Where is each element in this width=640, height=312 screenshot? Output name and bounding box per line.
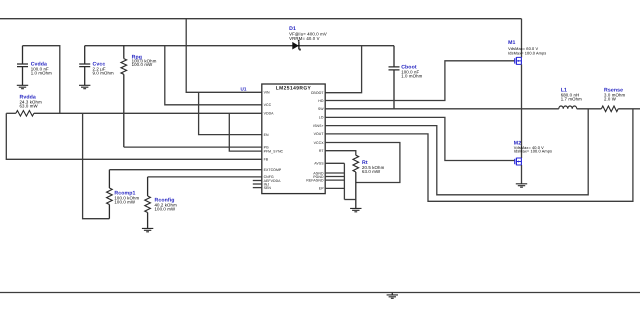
wire: M1 drain from input rail	[521, 19, 523, 58]
svg-text:1.7 mOhm: 1.7 mOhm	[561, 97, 582, 102]
wire: Rpg bottom to U1 PG pin	[124, 146, 262, 148]
svg-text:VRRM= 40.0 V: VRRM= 40.0 V	[289, 36, 320, 41]
svg-text:SW: SW	[318, 107, 324, 111]
wire: VCC net drop to U1 VCC pin	[165, 46, 262, 105]
ground: Cvdda ground	[17, 85, 28, 88]
svg-text:SEN: SEN	[264, 186, 272, 190]
svg-text:EN: EN	[264, 133, 269, 137]
wire: EN tie to VIN net	[199, 92, 262, 134]
wire: VDDA rail	[6, 112, 261, 114]
svg-text:VOUT: VOUT	[314, 132, 325, 136]
svg-text:CBOOT: CBOOT	[311, 91, 325, 95]
wire: M2 source to ground	[521, 165, 523, 184]
svg-text:1.0 mOhm: 1.0 mOhm	[31, 70, 52, 75]
svg-text:9.0 mOhm: 9.0 mOhm	[93, 70, 114, 75]
svg-text:U1: U1	[241, 86, 247, 91]
svg-text:IdsMax= 100.0 Amps: IdsMax= 100.0 Amps	[514, 148, 552, 153]
svg-text:PFM_SYNC: PFM_SYNC	[264, 149, 284, 153]
svg-text:EP: EP	[319, 187, 324, 191]
svg-text:2.0 W: 2.0 W	[604, 97, 617, 102]
wire: SEN pin stub	[253, 187, 262, 189]
wire: INJ pin stub	[253, 183, 262, 185]
op-amp U1 LM25149RGY controller IC	[241, 84, 326, 194]
svg-text:IdsMax= 100.0 Amps: IdsMax= 100.0 Amps	[508, 50, 546, 55]
resistor Rpg	[121, 46, 157, 147]
wire: CBOOT pin riser to boot net	[325, 46, 361, 93]
ground: bottom rail ground symbol	[387, 293, 398, 299]
wire: L1 to Rsense	[577, 108, 602, 110]
wire: SW node	[325, 108, 521, 110]
wire: VCCX tie-down loop	[325, 143, 400, 183]
svg-text:VCCX: VCCX	[314, 141, 325, 145]
diode D1	[289, 26, 327, 51]
wire: EXTCOMP pin wire	[109, 169, 261, 171]
wire: FB net from divider to U1 FB pin	[6, 113, 261, 159]
wire: Rcomp1 bottom branch to VDDA rail	[83, 113, 110, 218]
svg-text:63.0 mW: 63.0 mW	[20, 103, 39, 108]
wire: LO gate drive route to M2	[325, 117, 515, 160]
svg-text:1.0 mOhm: 1.0 mOhm	[401, 74, 422, 79]
ground: Rt / analog ground	[350, 208, 361, 211]
wire: VIN rail drop to U1 VIN pin	[186, 19, 262, 93]
svg-text:HO: HO	[318, 99, 324, 103]
wire: output to right edge	[618, 108, 640, 110]
wire: PFM_SYNC tie to VDDA rail	[229, 113, 261, 151]
transistor M2	[514, 140, 552, 165]
wire: CNFG pin wire	[148, 176, 262, 178]
wire: AVSS AGND PGND REFAGND EP ground bus	[325, 163, 356, 199]
wire: HO gate drive route to M1	[325, 61, 515, 101]
resistor Rcomp1	[107, 170, 140, 219]
svg-text:100.0 mW: 100.0 mW	[132, 62, 154, 67]
wire: M1 source to SW to M2 drain	[521, 64, 523, 158]
transistor M1	[508, 40, 546, 64]
svg-text:VIN: VIN	[264, 91, 270, 95]
svg-text:EXTCOMP: EXTCOMP	[264, 168, 282, 172]
svg-text:FB: FB	[264, 158, 269, 162]
capacitor Cvcc	[79, 46, 114, 86]
ground: Cvcc ground	[79, 85, 90, 88]
resistor Rt	[353, 155, 385, 208]
resistor Rsense	[601, 88, 625, 112]
svg-text:100.0 mW: 100.0 mW	[155, 207, 177, 212]
wire: top VIN input rail	[0, 18, 522, 20]
inductor L1	[559, 88, 582, 109]
wire: SW to L1	[522, 108, 559, 110]
svg-text:ISNS+: ISNS+	[313, 124, 324, 128]
wire: ISNS+ kelvin sense loop	[325, 109, 588, 195]
capacitor Cvdda	[17, 46, 52, 86]
svg-text:RT: RT	[319, 149, 325, 153]
ground: M2 source ground	[516, 184, 527, 187]
svg-text:VCC: VCC	[264, 103, 272, 107]
wire: Cvdda top node to VDDA rail	[23, 46, 60, 114]
svg-text:LO: LO	[319, 116, 324, 120]
wire: bottom ground rail	[0, 292, 640, 294]
capacitor Cboot	[389, 46, 423, 109]
wire: VOUT kelvin sense loop	[325, 109, 633, 202]
ground: Rconfig ground	[142, 228, 153, 231]
resistor Rvdda	[16, 94, 42, 116]
wire: VCC net (Cvcc top, Rpg top, D1 anode line)	[85, 45, 394, 47]
wire: AEFVDDA pin stub	[253, 180, 262, 182]
svg-text:REFAGND: REFAGND	[306, 178, 324, 182]
wire: RT pin to Rt	[325, 151, 356, 156]
svg-text:100.0 mW: 100.0 mW	[114, 200, 136, 205]
svg-text:VDDA: VDDA	[264, 112, 275, 116]
svg-text:AVSS: AVSS	[314, 162, 324, 166]
svg-text:63.0 mW: 63.0 mW	[362, 169, 381, 174]
svg-text:LM25149RGY: LM25149RGY	[276, 85, 312, 91]
resistor Rconfig	[145, 177, 177, 229]
